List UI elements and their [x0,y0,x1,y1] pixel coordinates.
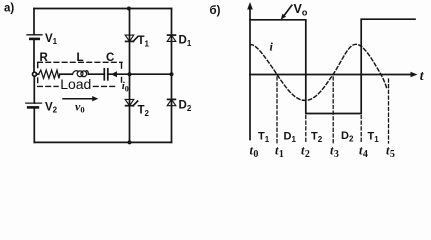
svg-text:C: C [106,52,114,64]
svg-text:Load: Load [60,76,91,92]
svg-text:L: L [77,52,84,64]
svg-text:a): a) [4,3,14,15]
svg-text:б): б) [210,5,221,17]
svg-text:R: R [40,52,49,64]
